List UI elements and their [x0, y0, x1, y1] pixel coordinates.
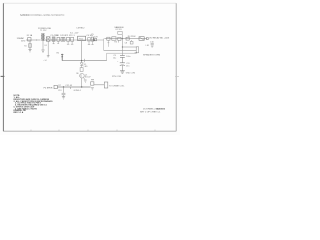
- ground (bridge): [47, 56, 50, 57]
- capacitor C13: [62, 93, 66, 95]
- svg-text:LED: LED: [84, 66, 88, 68]
- svg-text:RTN COM: RTN COM: [112, 76, 121, 78]
- ground (transformer): [41, 50, 44, 52]
- svg-text:SPEAKER 8 OHM: SPEAKER 8 OHM: [143, 54, 160, 57]
- svg-text:LM7812: LM7812: [77, 28, 86, 30]
- connector J4: [136, 47, 138, 53]
- wire pin row: [122, 46, 137, 48]
- wire bridge down: [47, 41, 49, 55]
- wire AC hot: [26, 39, 41, 41]
- node out: [146, 38, 148, 40]
- wire to logic block: [103, 39, 105, 51]
- svg-text:S1: S1: [24, 45, 26, 47]
- svg-text:+14: +14: [43, 60, 46, 62]
- svg-text:10u: 10u: [113, 57, 116, 59]
- svg-text:GONG 1: GONG 1: [74, 90, 81, 92]
- resistor R2: [107, 37, 110, 40]
- svg-text:R7: R7: [58, 85, 60, 87]
- ground (C13): [62, 97, 65, 99]
- node rail junction: [81, 60, 82, 61]
- svg-text:(TO RELAY BD +12V): (TO RELAY BD +12V): [149, 37, 170, 40]
- resistor R5 drop: [117, 40, 119, 42]
- relay K1: [139, 37, 144, 41]
- svg-text:DOORBELL SAB0600: DOORBELL SAB0600: [143, 107, 166, 110]
- transistor Q1: [80, 73, 85, 78]
- wire lower rail: [62, 60, 106, 62]
- svg-text:C13: C13: [58, 90, 61, 92]
- capacitor C14 chain: [91, 79, 94, 81]
- svg-text:R6: R6: [76, 73, 78, 75]
- svg-text:F1 1A: F1 1A: [27, 34, 33, 37]
- wire bus upper: [104, 49, 137, 51]
- svg-text:C12 .05: C12 .05: [65, 85, 72, 87]
- node junction: [122, 38, 123, 39]
- wire regulator gnd down: [80, 41, 82, 63]
- node Q1 junction: [81, 86, 82, 87]
- LED D5: [80, 63, 83, 66]
- capacitor C7 drop: [131, 40, 133, 41]
- svg-text:IC1 +12V: IC1 +12V: [70, 32, 79, 34]
- notes block: [14, 95, 54, 114]
- switch S1 (AC neutral leg): [29, 41, 31, 49]
- svg-text:+12V: +12V: [93, 36, 98, 38]
- wire bus lower: [107, 52, 137, 54]
- svg-text:P2 SPKR: P2 SPKR: [44, 88, 53, 90]
- svg-text:C11: C11: [126, 63, 129, 65]
- svg-text:SHT 1 OF 1 REV 1.1: SHT 1 OF 1 REV 1.1: [140, 111, 161, 113]
- wire Q1 emitter: [83, 77, 85, 79]
- node speaker junction: [63, 86, 64, 87]
- svg-text:IC2 N1: IC2 N1: [115, 29, 122, 31]
- svg-text:47u: 47u: [126, 66, 129, 68]
- svg-text:BC547: BC547: [85, 77, 91, 79]
- svg-text:100u: 100u: [126, 56, 130, 58]
- wire transformer center tap down: [42, 41, 44, 50]
- wire LED to R6: [81, 66, 83, 68]
- wire Q1 collector down: [81, 78, 83, 87]
- border tick right: [175, 75, 179, 77]
- ground (AC leg): [28, 50, 31, 52]
- wire to J3: [94, 84, 104, 86]
- resistor R6: [80, 68, 83, 72]
- diode bridge D1: [46, 37, 50, 41]
- ground (C11): [120, 71, 125, 73]
- connector P2: [54, 85, 57, 88]
- svg-text:D1: D1: [45, 45, 47, 47]
- svg-text:REV 1.1 A: REV 1.1 A: [14, 111, 24, 114]
- ground (C14): [91, 88, 94, 90]
- capacitor C10: [151, 44, 154, 45]
- connector J3: [104, 82, 108, 88]
- wire logic rail: [104, 38, 147, 40]
- ground (C10): [151, 46, 154, 47]
- capacitor C11 electrolytic: [120, 62, 125, 64]
- svg-text:7812: 7812: [78, 39, 84, 41]
- fuse F1: [28, 38, 31, 41]
- wire speaker: [57, 86, 90, 88]
- svg-text:SAB0600 DOORBELL GONG SCHEMATI: SAB0600 DOORBELL GONG SCHEMATIC: [20, 14, 65, 17]
- svg-text:T1 12V: T1 12V: [40, 30, 47, 32]
- wire IC pin column: [121, 35, 123, 56]
- wire C11 down: [121, 65, 123, 70]
- border tick left: [1, 75, 5, 77]
- wire transformer secondary: [45, 39, 104, 41]
- sheet border frame: [3, 3, 176, 131]
- resistor R3: [112, 37, 116, 40]
- svg-text:TO CHIME COIL: TO CHIME COIL: [109, 86, 125, 88]
- svg-text:GND COM: GND COM: [126, 73, 136, 75]
- border ticks bottom: [31, 130, 155, 132]
- svg-text:60Hz: 60Hz: [21, 40, 25, 42]
- ground (Q1 emitter): [84, 80, 87, 82]
- diode D3: [118, 37, 121, 40]
- wire cap drop: [63, 87, 65, 93]
